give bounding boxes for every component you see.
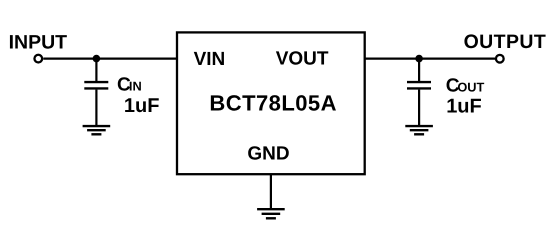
svg-text:VOUT: VOUT <box>276 48 329 69</box>
wire: CIN to input ground <box>95 90 97 126</box>
ground (output side) <box>405 126 433 134</box>
svg-text:GND: GND <box>247 143 289 164</box>
output terminal <box>496 55 504 63</box>
svg-text:COUT: COUT <box>446 75 485 96</box>
ground (input side) <box>83 126 111 134</box>
wire: output node down to COUT <box>418 59 420 81</box>
svg-text:VIN: VIN <box>194 49 226 70</box>
ground (GND pin) <box>257 209 285 218</box>
svg-text:BCT78L05A: BCT78L05A <box>209 91 337 116</box>
regulator U1 BCT78L05A body <box>177 32 365 174</box>
svg-text:INPUT: INPUT <box>9 32 68 54</box>
wire: output node to output terminal <box>419 57 495 59</box>
junction: input node <box>93 55 101 63</box>
capacitor COUT <box>407 82 431 88</box>
wire: COUT to output ground <box>418 90 420 126</box>
input terminal <box>34 55 42 63</box>
capacitor CIN <box>84 82 108 88</box>
svg-text:1uF: 1uF <box>446 96 482 118</box>
svg-text:CIN: CIN <box>117 74 142 95</box>
wire: input terminal to input node <box>43 57 96 59</box>
wire: input node down to CIN <box>95 59 97 81</box>
svg-text:1uF: 1uF <box>124 95 160 117</box>
svg-text:OUTPUT: OUTPUT <box>464 31 547 53</box>
junction: output node <box>415 55 423 63</box>
wire: VOUT pin to output node <box>365 57 420 59</box>
wire: GND pin to ground <box>270 174 272 209</box>
wire: input node to VIN pin <box>96 57 177 59</box>
